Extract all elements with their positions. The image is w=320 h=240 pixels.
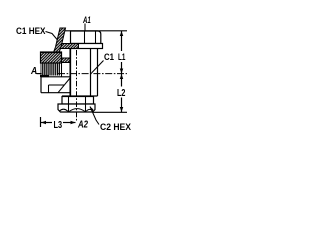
svg-text:C1: C1 — [104, 52, 114, 62]
svg-text:A2: A2 — [77, 119, 88, 130]
svg-text:A: A — [30, 66, 37, 77]
svg-text:C1 HEX: C1 HEX — [16, 26, 46, 36]
svg-text:A1: A1 — [82, 15, 90, 25]
svg-text:L3: L3 — [54, 120, 63, 131]
svg-text:L2: L2 — [117, 88, 126, 99]
svg-text:L1: L1 — [118, 52, 126, 63]
svg-text:C2 HEX: C2 HEX — [100, 122, 132, 132]
